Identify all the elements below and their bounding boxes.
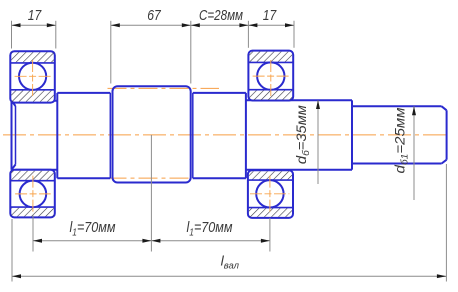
section d35 top edge xyxy=(246,99,352,101)
shoulder face d35 to d25 xyxy=(351,100,353,169)
extension line at right bearing right side xyxy=(293,21,295,48)
extension line at shaft middle xyxy=(150,135,152,252)
shaft axis centerline xyxy=(3,134,450,136)
shaft right end face xyxy=(446,110,448,159)
section C bottom edge xyxy=(193,177,246,179)
collar left face line xyxy=(109,93,111,178)
bearing bottom-right inner race line xyxy=(248,179,293,181)
bearing top-right outer box xyxy=(248,51,293,101)
extension line at right bearing left side xyxy=(247,21,249,48)
arrow l1 second left xyxy=(151,239,160,243)
bearing bottom-left vertical center mark xyxy=(32,176,34,213)
extension line at collar right face xyxy=(190,21,192,84)
section d35 bottom edge xyxy=(246,169,352,171)
collar body xyxy=(113,86,191,182)
shoulder face left of section B xyxy=(56,93,58,178)
bearing top-left inner race line xyxy=(10,89,55,91)
extension line at right bearing center xyxy=(269,218,271,252)
section d25 bottom edge xyxy=(352,163,442,165)
bearing top-left ball xyxy=(19,63,46,90)
bearing bottom-left xyxy=(10,170,55,218)
bearing bottom-left outer ring hatch xyxy=(11,208,54,217)
svg-text:17: 17 xyxy=(263,7,277,24)
bearing bottom-right horizontal center mark xyxy=(250,193,289,195)
bearing bottom-right outer box xyxy=(248,170,293,218)
bearing top-right outer ring hatch xyxy=(249,52,292,62)
bearing top-right ball xyxy=(257,62,284,89)
bearing top-right inner race line xyxy=(248,89,293,91)
bearing top-right horizontal center mark xyxy=(253,75,289,77)
bearing bottom-right inner ring hatch xyxy=(249,171,292,179)
arrow l1 first right xyxy=(142,239,151,243)
arrow C28 right xyxy=(239,23,248,27)
bearing top-right inner ring hatch xyxy=(249,90,292,100)
section C top edge xyxy=(193,92,246,94)
bearing bottom-right outer race line xyxy=(248,207,293,209)
bearing top-right xyxy=(248,51,293,101)
section d25 top edge xyxy=(352,105,442,107)
dimension line l1 spans xyxy=(33,240,270,242)
left bearing seat top edge xyxy=(16,100,58,102)
svg-text:l1=70мм: l1=70мм xyxy=(70,219,116,239)
arrow 17 right at bearing left edge xyxy=(248,23,257,27)
extension line at left bearing right side xyxy=(55,21,57,49)
dimension line 67 / C28 / 17 right xyxy=(111,24,294,26)
right end chamfer bottom xyxy=(442,160,447,164)
arrow 17 left at shaft face xyxy=(12,23,21,27)
svg-text:17: 17 xyxy=(28,7,42,24)
arrow d35 pointing up xyxy=(316,100,320,109)
left bearing seat bottom edge xyxy=(16,169,58,171)
right end chamfer top xyxy=(442,106,447,110)
bearing top-left horizontal center mark xyxy=(15,75,51,77)
svg-text:C=28мм: C=28мм xyxy=(199,7,243,24)
arrow 17 right at bearing right edge xyxy=(285,23,294,27)
leader line d25 xyxy=(413,106,415,200)
arrow lval right xyxy=(437,274,447,278)
section B bottom edge xyxy=(57,177,110,179)
bearing bottom-left outer race line xyxy=(10,206,55,208)
arrow lval left xyxy=(12,274,21,278)
arrow 17 left at bearing edge xyxy=(47,23,56,27)
bearing bottom-left inner race line xyxy=(10,180,55,182)
extension line at shaft left end for lval xyxy=(11,219,13,282)
arrow d25 pointing up xyxy=(412,106,416,115)
shoulder face right of section C xyxy=(245,93,247,178)
left end chamfer top xyxy=(12,101,16,106)
bearing bottom-right xyxy=(248,170,293,218)
auxiliary centerline above collar xyxy=(108,87,220,89)
bearing top-left xyxy=(10,51,55,102)
bearing bottom-left inner ring hatch xyxy=(11,171,54,180)
bearing top-left inner ring hatch xyxy=(11,90,54,101)
left end chamfer bottom xyxy=(12,165,16,170)
bearing bottom-right outer ring hatch xyxy=(249,208,292,217)
extension line at shaft right end for lval xyxy=(445,164,447,282)
arrow 67 left xyxy=(111,23,120,27)
bearing top-left outer ring hatch xyxy=(11,52,54,62)
auxiliary centerline below collar xyxy=(108,177,220,179)
svg-text:l1=70мм: l1=70мм xyxy=(187,219,233,239)
leader line d35 xyxy=(317,100,319,184)
bearing bottom-left horizontal center mark xyxy=(15,193,51,195)
bearing bottom-right ball xyxy=(256,180,283,207)
extension line at shaft left face xyxy=(11,21,13,49)
arrow l1 second right xyxy=(261,239,270,243)
bearing bottom-right vertical center mark xyxy=(269,176,271,213)
arrow 67 right xyxy=(182,23,191,27)
bearing top-left outer race line xyxy=(10,62,55,64)
section B top edge xyxy=(57,92,110,94)
bearing bottom-left outer box xyxy=(10,170,55,218)
svg-text:67: 67 xyxy=(147,7,161,24)
bearing top-right vertical center mark xyxy=(270,60,272,96)
collar right face line xyxy=(192,93,194,178)
arrow l1 first left xyxy=(33,239,42,243)
bearing top-left vertical center mark xyxy=(32,60,34,96)
bearing top-right outer race line xyxy=(248,61,293,63)
dimension line lval xyxy=(12,275,446,277)
dimension line 17 left xyxy=(12,24,56,26)
bearing top-left outer box xyxy=(10,51,55,102)
bearing bottom-left ball xyxy=(20,181,47,208)
arrow C28 left xyxy=(191,23,200,27)
shaft left end face xyxy=(11,101,13,170)
extension line at left bearing center xyxy=(32,216,34,252)
extension line at collar left face xyxy=(110,21,112,84)
left end chamfer edge line xyxy=(15,106,17,165)
